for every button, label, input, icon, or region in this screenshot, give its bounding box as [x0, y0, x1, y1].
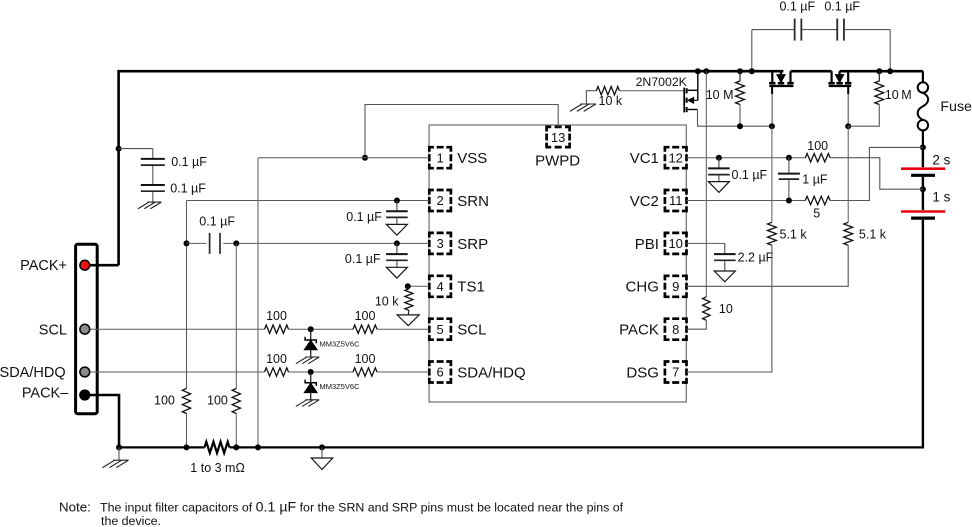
- svg-text:1 to 3 mΩ: 1 to 3 mΩ: [190, 461, 245, 475]
- svg-text:2.2 µF: 2.2 µF: [738, 251, 774, 265]
- IC U1 bq device outline: [429, 125, 686, 402]
- svg-text:SCL: SCL: [39, 322, 67, 338]
- node SRN bypass tap: [394, 198, 400, 204]
- svg-text:the device.: the device.: [101, 514, 161, 527]
- svg-text:100: 100: [266, 352, 287, 366]
- node top caps left at rail: [749, 68, 755, 74]
- resistor R6 100 SDA outer: [265, 368, 289, 376]
- node PWPD-VSS junction: [362, 155, 368, 161]
- wire top caps left leg: [751, 30, 753, 72]
- wire bottom rail right of sense resistor: [230, 446, 925, 448]
- node DSG gate junction: [769, 123, 775, 129]
- node PACK column at rail: [703, 68, 709, 74]
- node C9 bottom tap: [786, 198, 792, 204]
- resistor R4 100 SCL outer: [265, 325, 289, 333]
- node DSG gate-drive left: [737, 123, 743, 129]
- resistor R16 5.1k CHG: [844, 222, 853, 245]
- wire SCL from connector: [90, 328, 265, 330]
- capacitor C5 0.1uF SRP bypass: [396, 243, 398, 253]
- svg-text:SCL: SCL: [457, 322, 486, 339]
- svg-text:5.1 k: 5.1 k: [859, 228, 887, 242]
- resistor R13 100 VC1: [805, 154, 830, 162]
- svg-text:Note:: Note:: [59, 500, 91, 515]
- capacitor C3 0.1uF SRN-SRP series: [209, 233, 211, 254]
- pin 8 PACK box: [665, 319, 687, 340]
- pin 5 SCL box: [429, 319, 451, 340]
- wire CHG gate column lower to pin 9: [687, 245, 849, 286]
- svg-text:12: 12: [668, 150, 682, 165]
- wire SRN filter column: [186, 201, 188, 389]
- svg-text:10 M: 10 M: [706, 88, 734, 102]
- node 10M right at rail: [876, 68, 882, 74]
- wire CHG gate column upper: [847, 126, 849, 222]
- svg-text:MM3Z5V6C: MM3Z5V6C: [320, 382, 361, 391]
- wire top rail FET drain-drain segment: [791, 70, 832, 73]
- capacitor C10 2.2uF PBI: [724, 243, 726, 253]
- node VC1 bypass tap: [716, 155, 722, 161]
- svg-text:1 s: 1 s: [932, 189, 950, 204]
- resistor R2 100 SRP filter: [232, 389, 240, 414]
- svg-text:CHG: CHG: [626, 279, 659, 296]
- svg-text:2: 2: [436, 193, 443, 208]
- zener D1 MM3Z5V6C: [310, 329, 312, 340]
- wire bottom rail left of sense resistor: [119, 446, 205, 448]
- wire VC1 row: [687, 157, 806, 159]
- ground chassis 10k: [570, 104, 596, 111]
- node top caps right at rail: [887, 68, 893, 74]
- fuse F1: [922, 71, 924, 82]
- svg-text:100: 100: [355, 352, 376, 366]
- pin 1 VSS box: [429, 147, 451, 168]
- wire VSS row: [258, 157, 429, 159]
- wire PWPD to VSS: [365, 105, 558, 158]
- node PACK+ cap tap: [116, 146, 122, 152]
- wire PACK+ stub: [90, 264, 119, 267]
- svg-text:2N7002K: 2N7002K: [636, 75, 688, 89]
- transistor Q1 2N7002K: [683, 88, 685, 113]
- wire DSG gate column upper: [771, 126, 773, 222]
- resistor R8 sense 1 to 3 mOhm: [205, 442, 230, 453]
- resistor R7 100 SDA inner: [353, 368, 377, 376]
- svg-text:VC1: VC1: [630, 150, 659, 167]
- svg-text:Fuse: Fuse: [940, 99, 972, 115]
- svg-text:100: 100: [154, 394, 175, 408]
- wire PBI stub: [687, 242, 725, 244]
- svg-text:10 k: 10 k: [599, 94, 623, 108]
- capacitor C9 1uF between VC1 and VC2: [788, 158, 790, 173]
- pin 7 DSG box: [665, 362, 687, 383]
- wire SRN row: [187, 200, 430, 202]
- svg-text:13: 13: [551, 130, 565, 145]
- node VSS at bottom rail: [255, 444, 261, 450]
- svg-text:0.1 µF: 0.1 µF: [171, 155, 207, 169]
- wire TS1 stub: [408, 285, 430, 287]
- capacitor C2 0.1uF lower: [141, 184, 165, 186]
- ground triangle bottom rail: [319, 444, 325, 450]
- svg-text:100: 100: [355, 309, 376, 323]
- resistor R11 10M DSG gate: [739, 71, 741, 81]
- transistor Q2 power FET: [771, 71, 773, 82]
- svg-text:0.1 µF: 0.1 µF: [732, 168, 768, 182]
- pin 4 TS1 box: [429, 276, 451, 297]
- capacitor C4 0.1uF SRN bypass: [396, 201, 398, 211]
- ground triangle TS1: [397, 315, 419, 326]
- resistor R14 5 VC2: [805, 196, 830, 204]
- resistor R10 10 PACK: [703, 297, 710, 320]
- wire R10 to pin 8: [687, 320, 707, 329]
- svg-text:5: 5: [813, 207, 820, 221]
- svg-text:PACK+: PACK+: [20, 258, 67, 274]
- wire SRP row: [236, 242, 429, 244]
- wire SRN junction to series cap: [187, 242, 207, 244]
- wire PACK column: [705, 71, 707, 297]
- svg-text:10 k: 10 k: [375, 294, 399, 308]
- connector pin PACK+: [80, 260, 90, 270]
- wire ground to 10k: [586, 91, 596, 104]
- node R2 at bottom rail: [233, 444, 239, 450]
- transistor Q3 power FET: [847, 71, 849, 82]
- node CHG gate junction: [845, 123, 851, 129]
- node R1 at bottom rail: [184, 444, 190, 450]
- pin 3 SRP box: [429, 233, 451, 254]
- wire 10k to Q1 gate: [619, 90, 684, 92]
- svg-text:0.1 µF: 0.1 µF: [346, 210, 382, 224]
- svg-text:SRP: SRP: [457, 236, 488, 253]
- svg-text:1 µF: 1 µF: [802, 173, 828, 187]
- connector pin PACK-: [80, 390, 90, 400]
- svg-text:TS1: TS1: [457, 279, 485, 296]
- svg-text:PACK: PACK: [619, 322, 659, 339]
- resistor R5 100 SCL inner: [353, 325, 377, 333]
- wire VC2 to battery top: [830, 147, 923, 200]
- resistor R3 10k thermistor pulldown: [407, 286, 410, 289]
- pin 10 PBI box: [665, 233, 687, 254]
- node SDA zener tap: [308, 369, 314, 375]
- wire Q1 source to gate-drive node: [698, 110, 772, 127]
- svg-text:DSG: DSG: [626, 364, 659, 381]
- svg-text:10: 10: [668, 236, 682, 251]
- node SRN filter junction: [184, 240, 190, 246]
- ground chassis D1: [296, 357, 319, 364]
- svg-text:0.1 µF: 0.1 µF: [170, 182, 206, 196]
- capacitor C8 0.1uF VC1: [718, 158, 720, 168]
- pin 2 SRN box: [429, 190, 451, 211]
- wire PACK- stub: [90, 395, 119, 447]
- pin 6 SDA/HDQ box: [429, 362, 451, 383]
- svg-text:PBI: PBI: [635, 236, 659, 253]
- wire top caps row segments: [752, 29, 794, 31]
- connector pin SDA/HDQ: [80, 367, 90, 377]
- wire DSG gate column lower to pin 7: [687, 245, 772, 372]
- wire R2 to rail: [235, 414, 237, 448]
- wire to ESD caps: [119, 149, 153, 159]
- svg-text:1: 1: [436, 150, 443, 165]
- svg-text:100: 100: [266, 309, 287, 323]
- svg-text:PACK–: PACK–: [22, 385, 69, 401]
- node Q1 drain at rail: [695, 68, 701, 74]
- svg-text:0.1 µF: 0.1 µF: [345, 252, 381, 266]
- battery cell 1s: [901, 210, 945, 213]
- svg-text:MM3Z5V6C: MM3Z5V6C: [320, 339, 361, 348]
- capacitor C1 0.1uF upper: [141, 158, 165, 160]
- resistor R15 5.1k DSG: [768, 222, 777, 245]
- wire R1 to rail: [186, 414, 188, 448]
- svg-text:100: 100: [807, 139, 828, 153]
- svg-text:10: 10: [719, 302, 733, 316]
- ground chassis below ESD caps: [138, 202, 161, 209]
- svg-text:7: 7: [672, 365, 679, 380]
- wire Q2 gate tap: [771, 86, 773, 94]
- pin 13 PWPD box: [547, 127, 570, 147]
- wire between ESD caps: [152, 166, 154, 184]
- wire battery column mid: [922, 189, 924, 210]
- battery cell 2s: [901, 167, 945, 170]
- svg-text:4: 4: [436, 279, 443, 294]
- wire VC2 row: [687, 200, 806, 202]
- svg-text:100: 100: [207, 394, 228, 408]
- wire R3 to ground: [407, 310, 410, 315]
- svg-text:0.1 µF: 0.1 µF: [779, 0, 815, 13]
- svg-text:SDA/HDQ: SDA/HDQ: [457, 364, 525, 381]
- connector J1 body: [76, 244, 98, 413]
- wire Q3 gate tap: [847, 86, 849, 94]
- ground chassis D2: [296, 400, 319, 407]
- node C9 top tap: [786, 155, 792, 161]
- node battery top: [920, 144, 926, 150]
- pin 11 VC2 box: [665, 190, 687, 211]
- pin 12 VC1 box: [665, 147, 687, 168]
- zener D2 MM3Z5V6C: [310, 372, 312, 383]
- wire battery column bottom: [922, 220, 924, 449]
- svg-text:11: 11: [669, 193, 683, 208]
- resistor R9 10k gate: [596, 87, 619, 95]
- wire SDA/HDQ from connector: [90, 371, 265, 373]
- svg-text:VSS: VSS: [457, 150, 487, 167]
- svg-text:PWPD: PWPD: [535, 153, 580, 170]
- wire VSS down to sense resistor: [257, 158, 259, 448]
- capacitor C7 0.1uF: [836, 19, 838, 41]
- wire cap to ground: [152, 192, 154, 202]
- svg-text:6: 6: [436, 365, 443, 380]
- svg-text:8: 8: [672, 322, 679, 337]
- node 10M left at rail: [737, 68, 743, 74]
- svg-text:2 s: 2 s: [932, 153, 950, 168]
- wire SDA row segments: [289, 371, 354, 373]
- wire top caps right leg: [889, 30, 891, 72]
- svg-text:The input filter capacitors of: The input filter capacitors of 0.1 µF fo…: [100, 500, 624, 516]
- svg-text:3: 3: [436, 236, 443, 251]
- wire VC1 to battery midpoint: [830, 158, 923, 190]
- svg-text:5.1 k: 5.1 k: [780, 228, 808, 242]
- wire SRP filter column: [235, 243, 237, 388]
- svg-text:9: 9: [672, 279, 679, 294]
- ground chassis PACK- rail: [116, 444, 122, 450]
- svg-text:VC2: VC2: [630, 193, 659, 210]
- node battery midpoint: [920, 186, 926, 192]
- node SRP bypass tap: [394, 240, 400, 246]
- wire series cap to SRP junction: [223, 242, 236, 244]
- resistor R1 100 SRN filter: [182, 389, 190, 414]
- svg-text:0.1 µF: 0.1 µF: [199, 215, 235, 229]
- capacitor C6 0.1uF: [794, 19, 796, 41]
- resistor R12 10M CHG gate: [878, 71, 880, 81]
- svg-text:5: 5: [436, 322, 443, 337]
- node SRP filter junction: [233, 240, 239, 246]
- wire top rail PACK+ to DSG FET source: [119, 71, 784, 265]
- svg-text:10 M: 10 M: [885, 88, 912, 102]
- wire battery column top: [922, 147, 924, 167]
- svg-text:SDA/HDQ: SDA/HDQ: [0, 365, 66, 381]
- pin 9 CHG box: [665, 276, 687, 297]
- connector pin SCL: [80, 324, 90, 334]
- svg-text:SRN: SRN: [457, 193, 489, 210]
- node SCL zener tap: [308, 326, 314, 332]
- wire top rail CHG FET source to fuse: [840, 70, 923, 73]
- wire SCL row segments: [289, 328, 354, 330]
- svg-text:0.1 µF: 0.1 µF: [824, 0, 860, 13]
- node TS1 junction: [405, 283, 411, 289]
